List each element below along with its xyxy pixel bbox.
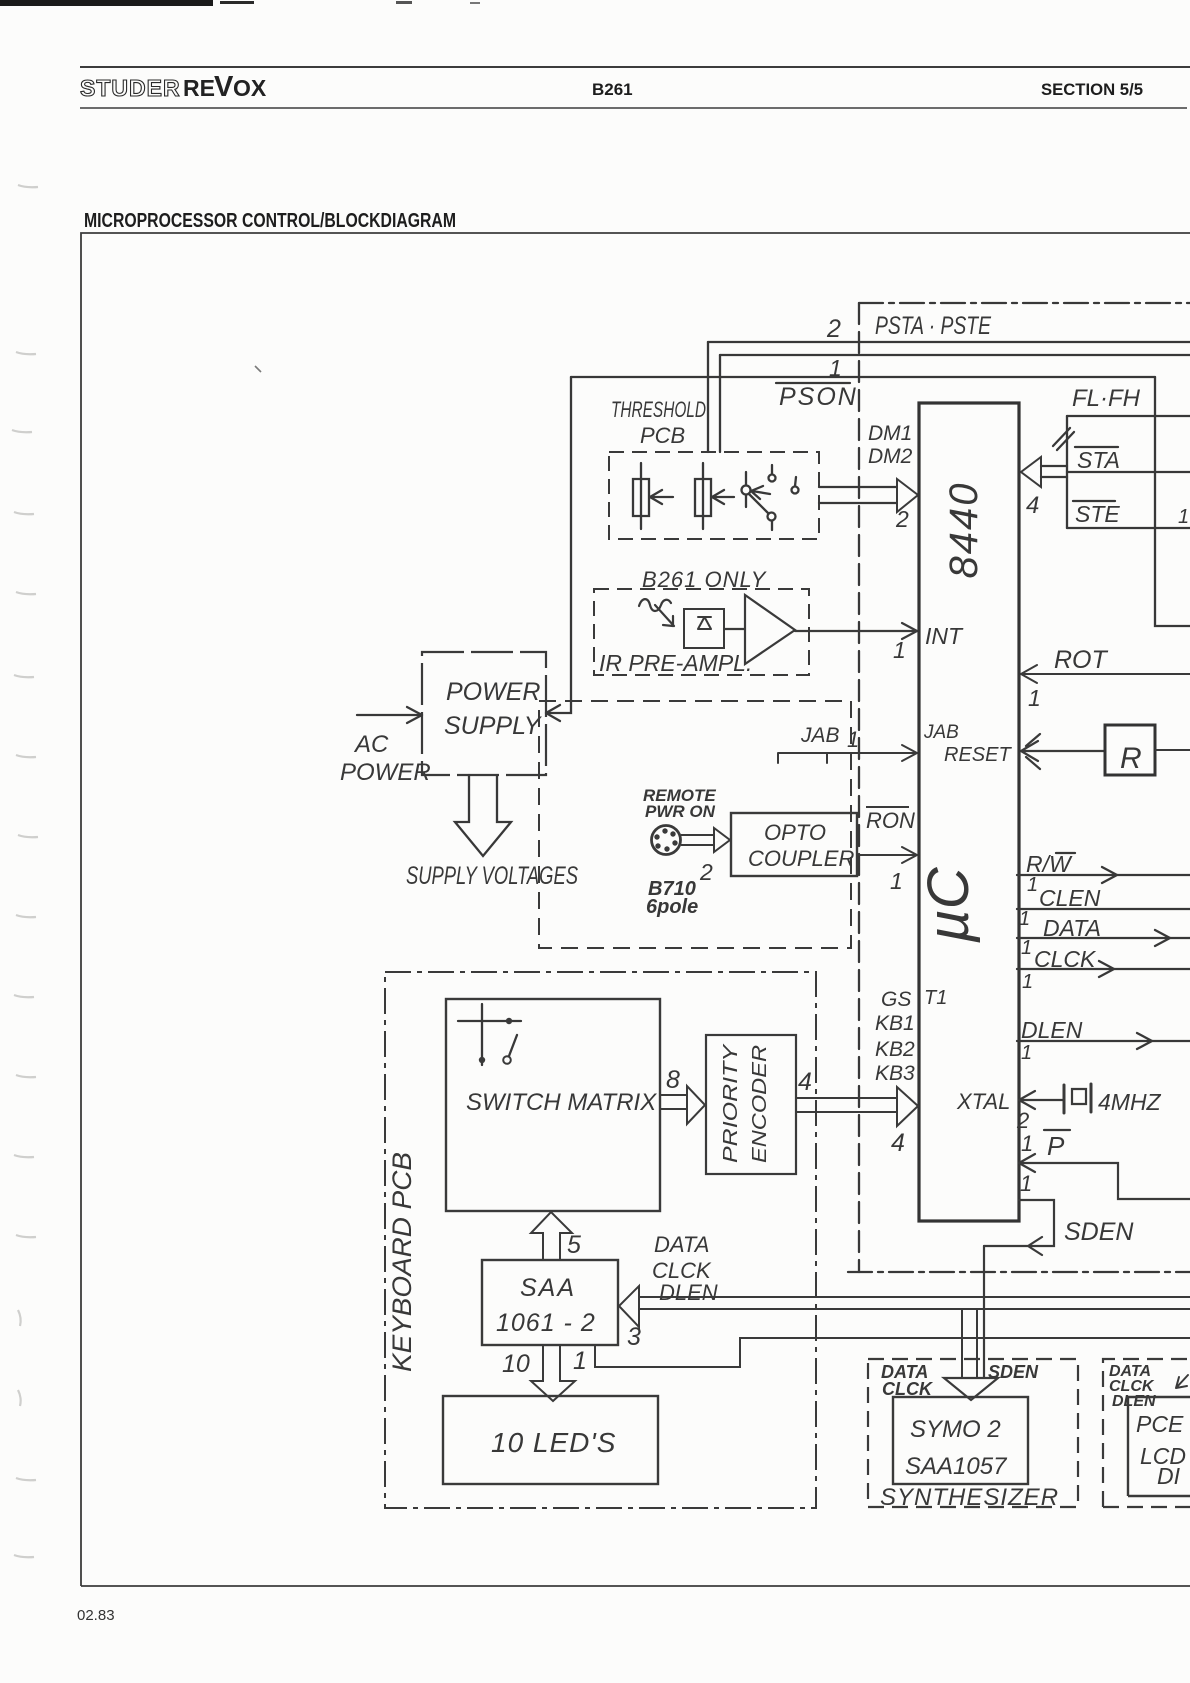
svg-text:2: 2 — [699, 859, 713, 885]
svg-text:1: 1 — [1021, 1131, 1033, 1156]
wire CLEN — [1017, 908, 1190, 910]
svg-text:KEYBOARD PCB: KEYBOARD PCB — [387, 1152, 417, 1372]
svg-text:6pole: 6pole — [646, 896, 698, 918]
svg-text:PRIORITY: PRIORITY — [720, 1043, 742, 1163]
hollow arrow SAA to LEDs — [531, 1345, 575, 1401]
arrow head INT — [902, 623, 917, 639]
switch S1 contact bottom — [768, 513, 776, 521]
scan speck — [255, 366, 261, 372]
header rule top — [80, 66, 1190, 68]
wire PSTA — [708, 341, 1190, 343]
svg-text:B261: B261 — [592, 80, 633, 99]
wire DATA — [1017, 930, 1190, 946]
switch symbol dots — [506, 1018, 512, 1024]
node vertical STA STE — [1066, 416, 1068, 528]
supply voltages hollow arrow — [455, 775, 511, 856]
main unit dash-dot boundary (top) — [859, 302, 1190, 304]
wire RESET from R — [1021, 734, 1105, 769]
arrow head STA STE into uC — [1021, 457, 1041, 487]
switch S1 contact mid — [769, 475, 776, 482]
svg-text:SUPPLY: SUPPLY — [444, 712, 543, 740]
bus threshold to uC (DM1 DM2) — [819, 487, 897, 503]
svg-text:1: 1 — [1022, 971, 1033, 993]
bus switch matrix to encoder — [660, 1095, 687, 1109]
main unit dash-dot boundary (bottom) — [848, 1271, 1190, 1273]
wire PSON horizontal — [571, 376, 1155, 378]
top scan bar — [0, 0, 213, 6]
arrow head JAB — [902, 745, 917, 761]
arrow head AC in — [407, 707, 422, 723]
svg-text:RESET: RESET — [944, 744, 1012, 766]
bus width hash — [1053, 428, 1074, 450]
wire R/W — [1017, 867, 1190, 883]
svg-text:OX: OX — [233, 75, 267, 101]
svg-text:SECTION 5/5: SECTION 5/5 — [1041, 80, 1143, 99]
wire PSTA riser — [707, 342, 709, 452]
wire AC power in — [357, 714, 419, 716]
svg-text:PSON: PSON — [779, 383, 858, 411]
PCE LCD display box — [1128, 1397, 1190, 1496]
svg-text:5: 5 — [567, 1231, 581, 1259]
svg-text:PSTA · PSTE: PSTA · PSTE — [875, 312, 991, 340]
svg-text:V: V — [214, 71, 234, 103]
R/W overline (over W) — [1056, 852, 1075, 854]
svg-text:STE: STE — [1075, 501, 1120, 527]
svg-text:DLEN: DLEN — [1112, 1393, 1156, 1410]
main unit dash-dot boundary (left) — [858, 303, 860, 1272]
svg-text:ROT: ROT — [1054, 646, 1109, 674]
KEYBOARD PCB dash-dot box — [385, 972, 816, 1508]
display dashed box — [1103, 1359, 1190, 1507]
svg-text:1: 1 — [1020, 1171, 1032, 1196]
label RON overline — [866, 806, 909, 808]
IR pre-amp A1 — [745, 595, 795, 664]
10 LEDs box — [443, 1396, 658, 1484]
svg-text:1: 1 — [573, 1347, 587, 1375]
wire PSTE riser — [719, 355, 721, 452]
switch S1 lever — [749, 494, 768, 513]
svg-text:DATA: DATA — [1043, 915, 1101, 941]
svg-text:DATA: DATA — [654, 1232, 709, 1257]
svg-text:KB1: KB1 — [875, 1012, 915, 1035]
wire P — [1019, 1154, 1190, 1199]
svg-text:SAA1057: SAA1057 — [905, 1453, 1008, 1480]
arrow into display — [1176, 1375, 1188, 1388]
svg-text:MICROPROCESSOR CONTROL/BLOCKDI: MICROPROCESSOR CONTROL/BLOCKDIAGRAM — [84, 210, 456, 232]
svg-text:OPTO: OPTO — [764, 820, 826, 845]
svg-text:CLEN: CLEN — [1039, 885, 1101, 911]
svg-text:2: 2 — [1016, 1108, 1029, 1133]
microprocessor U1 8440 — [919, 403, 1019, 1221]
switch S1 pole — [742, 486, 751, 495]
svg-text:R: R — [1120, 742, 1142, 775]
svg-text:1: 1 — [1028, 685, 1041, 711]
svg-text:STA: STA — [1077, 447, 1120, 473]
wire DLEN — [1017, 1033, 1190, 1049]
svg-text:DM2: DM2 — [868, 445, 913, 468]
svg-text:1: 1 — [1019, 908, 1030, 930]
arrow head into encoder — [687, 1086, 705, 1124]
svg-text:1: 1 — [890, 868, 903, 894]
connector pins — [654, 828, 677, 851]
svg-text:10: 10 — [502, 1350, 530, 1378]
B261 ONLY dashed box — [594, 589, 809, 675]
svg-text:RE: RE — [183, 75, 215, 101]
wire CLCK — [1017, 961, 1190, 977]
connector B710 6pole — [652, 826, 681, 855]
svg-text:DLEN: DLEN — [659, 1280, 718, 1305]
switch S1 wiper arrow — [751, 486, 770, 499]
arrow head KB into uC — [897, 1087, 918, 1126]
header rule bottom — [80, 107, 1187, 109]
svg-text:PCB: PCB — [640, 423, 685, 448]
svg-text:4MHZ: 4MHZ — [1098, 1089, 1162, 1115]
OPTO COUPLER box — [731, 813, 857, 876]
svg-text:SAA: SAA — [520, 1274, 576, 1302]
svg-text:µC: µC — [916, 866, 981, 943]
svg-text:KB2: KB2 — [875, 1038, 915, 1061]
svg-text:1: 1 — [893, 637, 906, 663]
bus CLCK line — [639, 1308, 1190, 1310]
SAA 1061-2 box — [482, 1260, 618, 1345]
bus DATA line — [639, 1296, 1190, 1298]
wire STA — [1067, 471, 1190, 473]
THRESHOLD PCB dashed box — [609, 452, 819, 539]
svg-text:P: P — [1047, 1131, 1065, 1161]
svg-text:1: 1 — [1178, 506, 1189, 528]
synthesizer hollow arrow shaft — [962, 1309, 977, 1378]
svg-text:DLEN: DLEN — [1021, 1017, 1083, 1043]
svg-text:KB3: KB3 — [875, 1062, 915, 1085]
arrow head DM into uC — [897, 479, 918, 512]
potentiometer P1 — [633, 463, 673, 529]
svg-text:SUPPLY VOLTAGES: SUPPLY VOLTAGES — [406, 862, 578, 890]
svg-text:8440: 8440 — [942, 482, 986, 579]
switch S1 contact right — [792, 487, 799, 494]
wire FL FH — [1067, 415, 1190, 417]
svg-text:ENCODER: ENCODER — [749, 1045, 771, 1163]
svg-text:POWER: POWER — [340, 759, 431, 786]
svg-text:PWR ON: PWR ON — [645, 802, 716, 821]
hollow arrow SAA to switch matrix — [531, 1212, 572, 1260]
photodiode D1 — [684, 609, 724, 648]
svg-text:JAB: JAB — [800, 724, 840, 747]
svg-text:B261 ONLY: B261 ONLY — [642, 567, 767, 592]
svg-text:2: 2 — [895, 506, 909, 532]
remote power dashed box — [539, 701, 851, 948]
wire 1 from SAA bottom — [595, 1338, 1190, 1367]
SWITCH MATRIX box — [446, 999, 660, 1211]
wire SDEN from uC — [984, 1200, 1054, 1255]
diagram frame — [81, 233, 1190, 1586]
svg-text:1: 1 — [829, 355, 842, 381]
svg-text:XTAL: XTAL — [956, 1089, 1010, 1114]
svg-text:SYNTHESIZER: SYNTHESIZER — [880, 1484, 1059, 1511]
wire SDEN drop to synthesizer — [983, 1246, 985, 1380]
wire INT — [795, 630, 917, 632]
wire STE — [1067, 527, 1190, 529]
svg-text:1: 1 — [1021, 1042, 1032, 1064]
svg-text:SWITCH MATRIX: SWITCH MATRIX — [466, 1089, 657, 1116]
P overline — [1044, 1129, 1070, 1131]
bus encoder to uC — [796, 1098, 897, 1112]
svg-text:AC: AC — [353, 731, 389, 758]
bus remote to opto — [681, 835, 714, 845]
svg-text:1: 1 — [1027, 874, 1038, 896]
svg-text:PCE: PCE — [1136, 1411, 1184, 1437]
svg-text:4: 4 — [798, 1068, 812, 1096]
SYNTHESIZER dashed box — [868, 1359, 1078, 1507]
svg-text:4: 4 — [1026, 492, 1039, 519]
svg-text:JAB: JAB — [923, 722, 959, 743]
wire diode to amp — [724, 628, 745, 630]
svg-text:SDEN: SDEN — [1064, 1218, 1134, 1246]
svg-text:DI: DI — [1157, 1463, 1181, 1489]
wire JAB — [778, 753, 917, 763]
svg-text:T1: T1 — [924, 987, 947, 1009]
svg-text:GS: GS — [881, 988, 911, 1011]
wire PSON riser to power supply — [549, 377, 571, 713]
svg-text:INT: INT — [925, 623, 964, 649]
svg-text:4: 4 — [891, 1129, 905, 1157]
IR beam zigzag — [639, 599, 674, 626]
STE overline — [1073, 500, 1115, 502]
svg-text:FL·FH: FL·FH — [1072, 385, 1141, 412]
svg-text:RON: RON — [866, 808, 915, 833]
bus STA STE to uC — [1041, 466, 1067, 477]
SYMO 2 SAA1057 box — [893, 1397, 1028, 1484]
svg-text:1: 1 — [847, 727, 859, 752]
crystal X1 4MHZ — [1064, 1084, 1091, 1113]
svg-text:1061 - 2: 1061 - 2 — [496, 1309, 596, 1337]
svg-text:02.83: 02.83 — [77, 1607, 115, 1624]
STA overline — [1075, 446, 1118, 448]
arrow into power supply right edge — [546, 705, 560, 721]
switch matrix symbol — [458, 1004, 521, 1065]
svg-text:IR PRE-AMPL.: IR PRE-AMPL. — [599, 650, 752, 676]
wire PSON right drop — [1155, 377, 1190, 626]
left margin scan marks — [12, 185, 38, 1557]
PRIORITY ENCODER box — [706, 1035, 796, 1174]
wire ROT — [1021, 665, 1190, 683]
arrow head into SAA (data clck dlen) — [619, 1286, 639, 1327]
arrow head into opto — [714, 828, 730, 852]
synthesizer arrow head — [944, 1378, 998, 1400]
svg-text:COUPLER: COUPLER — [748, 846, 854, 871]
svg-text:DM1: DM1 — [868, 422, 912, 445]
svg-text:POWER: POWER — [446, 678, 540, 706]
potentiometer P2 — [695, 463, 734, 529]
svg-text:SYMO 2: SYMO 2 — [910, 1416, 1001, 1443]
svg-text:THRESHOLD: THRESHOLD — [611, 397, 706, 422]
reset button R box — [1105, 725, 1155, 775]
svg-text:1: 1 — [1021, 937, 1032, 959]
svg-text:STUDER: STUDER — [80, 75, 181, 101]
svg-text:3: 3 — [627, 1323, 641, 1351]
wire PSTE — [720, 354, 1190, 356]
svg-text:2: 2 — [826, 315, 841, 343]
svg-text:SDEN: SDEN — [988, 1362, 1039, 1382]
svg-text:CLCK: CLCK — [1034, 946, 1097, 972]
svg-text:10 LED'S: 10 LED'S — [491, 1427, 616, 1458]
wire R to edge — [1155, 749, 1190, 751]
POWER SUPPLY box — [422, 652, 546, 775]
wire RON — [857, 847, 917, 863]
svg-text:8: 8 — [666, 1066, 680, 1094]
wire XTAL — [1019, 1091, 1064, 1109]
PSON overline — [776, 382, 850, 384]
